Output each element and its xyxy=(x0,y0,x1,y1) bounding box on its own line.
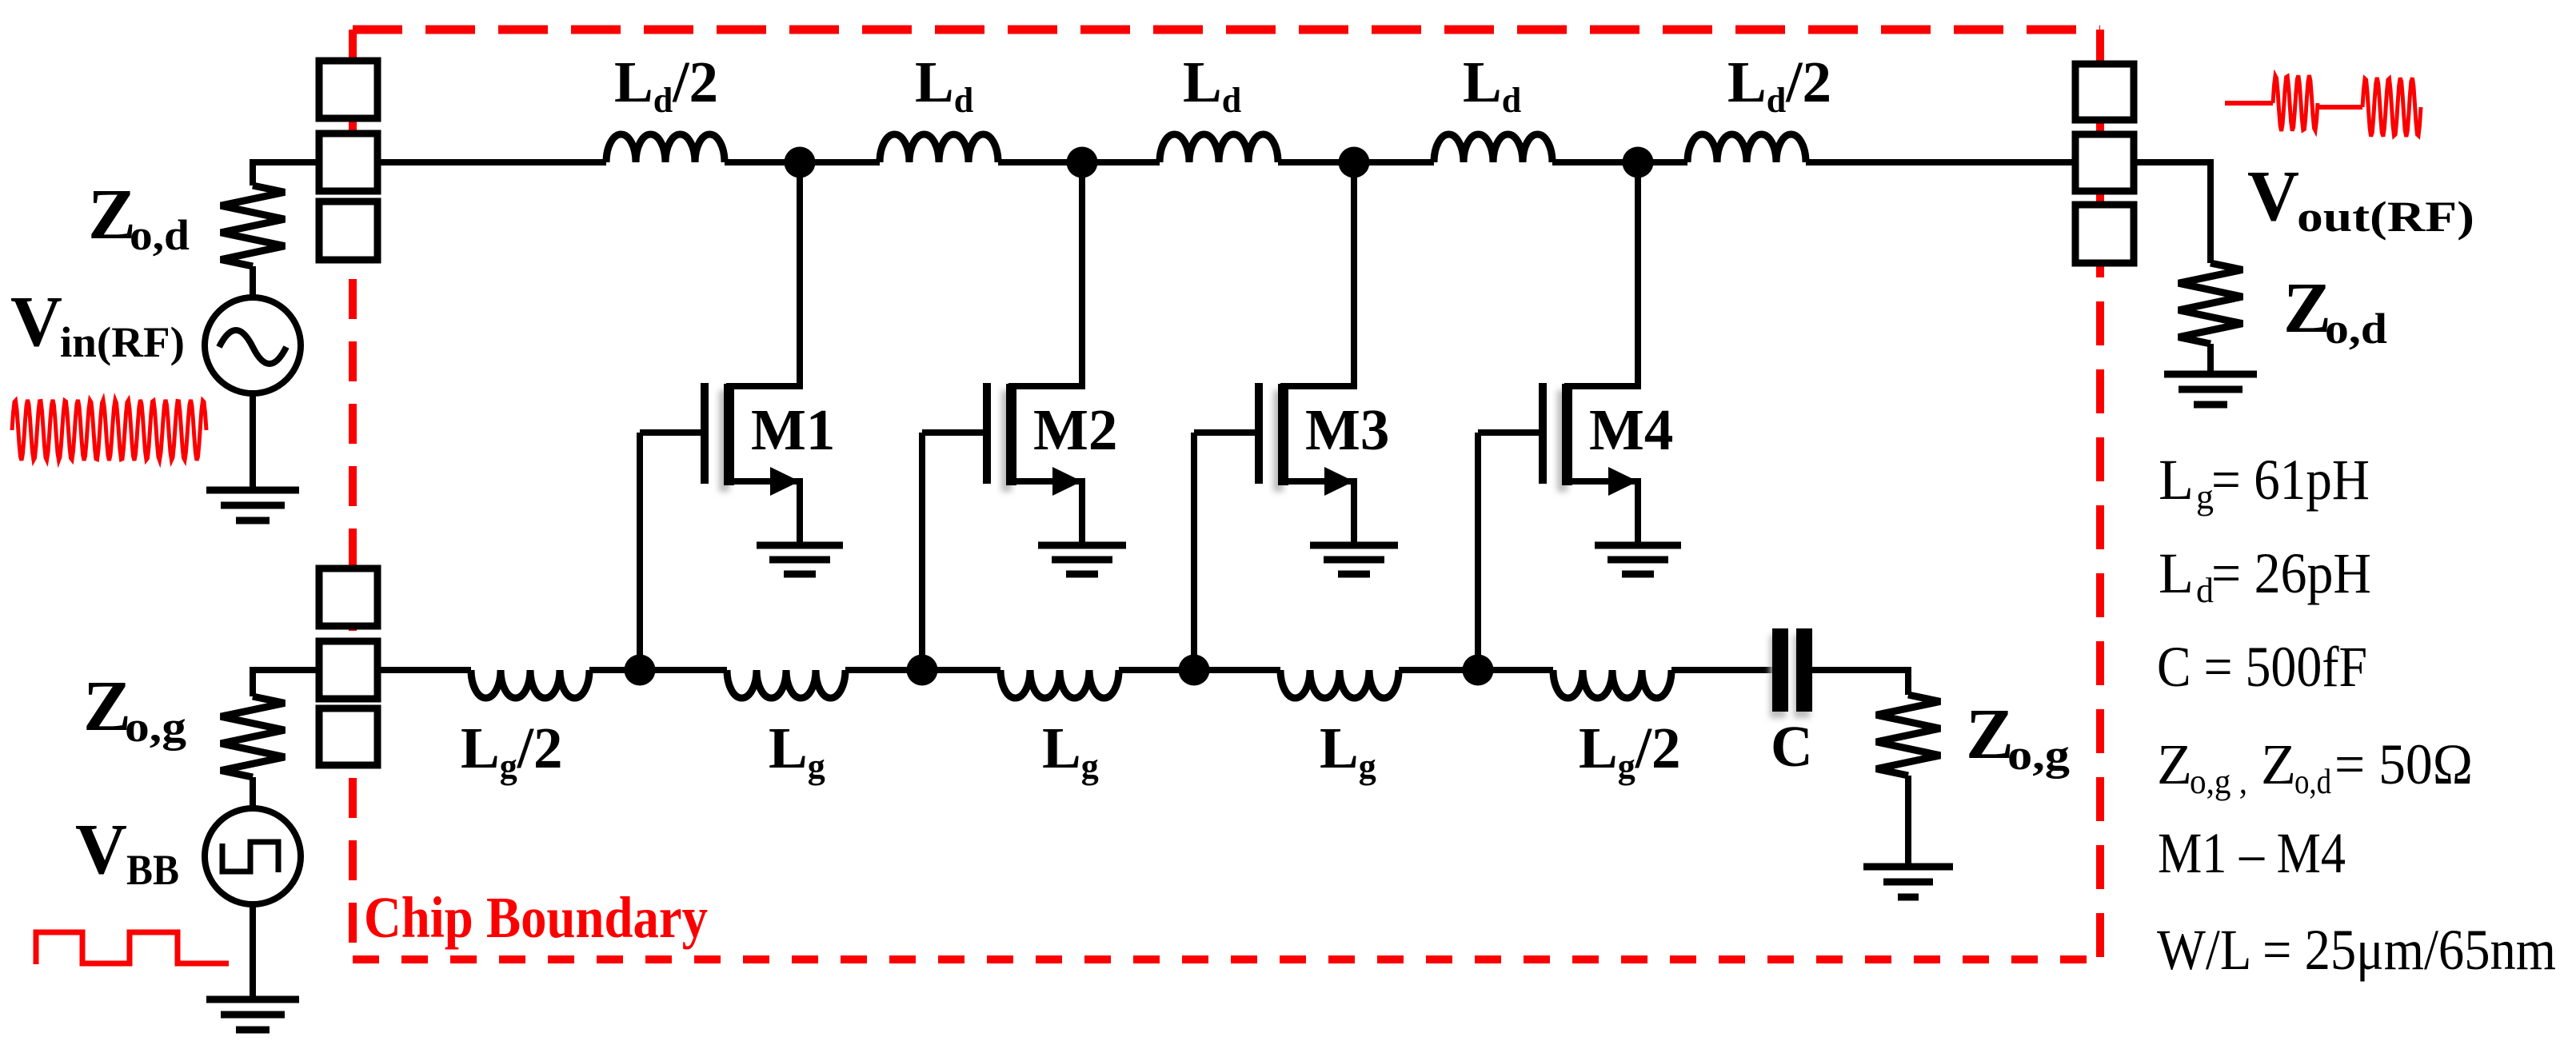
pad input drain bottom xyxy=(319,201,377,260)
pad input gate mid xyxy=(319,641,377,699)
svg-text:V: V xyxy=(10,282,62,361)
input RF sine burst (red) xyxy=(12,400,206,461)
label V_in(RF) xyxy=(10,282,185,366)
note Zo,g Zo,d = 50 ohm xyxy=(2157,732,2473,801)
label V_out(RF) xyxy=(2247,157,2474,241)
svg-text:= 26pH: = 26pH xyxy=(2211,541,2371,605)
inductor Lg third (gate line) xyxy=(1000,670,1119,698)
transistor M2 xyxy=(922,162,1082,670)
wire VBB source to ground xyxy=(250,904,256,999)
wire capacitor to Zo,g (termination) xyxy=(1812,670,1908,695)
label Ld/2 fifth xyxy=(1727,50,1831,120)
node gate-line junction G4 xyxy=(1463,655,1494,686)
svg-text:M1: M1 xyxy=(751,397,835,462)
note W/L = 25um/65nm xyxy=(2157,918,2556,982)
node drain-line junction D3 xyxy=(1339,147,1370,178)
ground (source of M2) xyxy=(1038,545,1126,574)
inductor Ld fourth (drain line) xyxy=(1434,134,1552,162)
svg-text:o,g ,: o,g , xyxy=(2190,762,2247,801)
label Z_o,d (output) xyxy=(2283,269,2387,353)
pad output top xyxy=(2075,64,2134,120)
ground (source of M1) xyxy=(757,545,843,574)
inductor Lg/2 fifth (gate line) xyxy=(1553,670,1671,698)
capacitor C xyxy=(1770,628,1812,718)
node drain-line junction D2 xyxy=(1067,147,1098,178)
label Ld second xyxy=(915,50,973,120)
ground (output Zo,d) xyxy=(2164,374,2257,405)
svg-text:W/L = 25μm/65nm: W/L = 25μm/65nm xyxy=(2157,918,2556,982)
resistor Zo,g (input) xyxy=(221,696,285,777)
transistor M3 xyxy=(1194,162,1354,670)
label M2 xyxy=(1033,397,1117,462)
note C = 500fF xyxy=(2157,635,2367,699)
ground (source of M4) xyxy=(1595,545,1681,574)
pad input drain mid xyxy=(319,134,377,191)
source Vin(RF) sine source xyxy=(205,297,301,393)
wire resistor to Vin source xyxy=(250,266,256,299)
pad input drain top xyxy=(319,61,377,118)
svg-text:out(RF): out(RF) xyxy=(2297,193,2474,241)
resistor Zo,g (termination) xyxy=(1876,695,1940,776)
svg-text:in(RF): in(RF) xyxy=(60,318,185,366)
label M1 xyxy=(751,397,835,462)
node gate-line junction G1 xyxy=(625,655,656,686)
svg-text:o,d: o,d xyxy=(130,211,190,259)
svg-text:V: V xyxy=(75,810,127,889)
node gate-line junction G2 xyxy=(907,655,938,686)
note Ld = 26pH xyxy=(2159,541,2371,610)
label V_BB xyxy=(75,810,179,894)
wire Vin source to ground xyxy=(250,393,256,490)
svg-text:= 61pH: = 61pH xyxy=(2211,448,2370,512)
label M3 xyxy=(1305,397,1389,462)
ground (termination Zo,g) xyxy=(1863,867,1953,897)
svg-text:o,d: o,d xyxy=(2325,305,2387,353)
node drain-line junction D4 xyxy=(1623,147,1654,178)
chip boundary top edge xyxy=(353,26,2100,34)
svg-text:V: V xyxy=(2247,157,2299,236)
label Chip Boundary xyxy=(364,885,708,950)
svg-text:Z: Z xyxy=(2157,732,2192,796)
label Lg/2 fifth xyxy=(1579,716,1681,786)
inductor Lg/2 first (gate line) xyxy=(471,670,589,698)
wire from drain rail to Zo,d (input) xyxy=(253,162,319,185)
svg-text:L: L xyxy=(2159,448,2194,512)
svg-text:= 50Ω: = 50Ω xyxy=(2334,732,2473,796)
resistor Zo,d (output) xyxy=(2179,263,2243,344)
svg-text:M2: M2 xyxy=(1033,397,1117,462)
node gate-line junction G3 xyxy=(1179,655,1210,686)
transistor M1 xyxy=(640,162,800,670)
wire from gate rail to Zo,g (input) xyxy=(253,670,319,696)
label M4 xyxy=(1589,397,1673,462)
wire drain line (top rail) xyxy=(253,159,2211,166)
label Lg fourth xyxy=(1320,716,1376,786)
svg-text:Chip Boundary: Chip Boundary xyxy=(364,885,708,950)
chip boundary left edge xyxy=(349,30,357,959)
resistor Zo,d (input) xyxy=(221,185,285,266)
svg-text:M1 – M4: M1 – M4 xyxy=(2158,821,2346,885)
label Ld fourth xyxy=(1463,50,1521,120)
label Ld third xyxy=(1183,50,1241,120)
wire gate line (bottom rail) xyxy=(253,667,1908,673)
wire resistor to ground (output) xyxy=(2207,344,2214,374)
svg-text:o,g: o,g xyxy=(125,703,186,751)
ground (VBB) xyxy=(206,999,299,1030)
inductor Ld third (drain line) xyxy=(1160,134,1278,162)
chip boundary right edge xyxy=(2096,30,2104,959)
svg-text:C: C xyxy=(1771,714,1813,779)
pad output bottom xyxy=(2075,205,2134,263)
svg-text:C = 500fF: C = 500fF xyxy=(2157,635,2367,699)
pad output mid xyxy=(2075,134,2134,191)
note M1 - M4 xyxy=(2158,821,2346,885)
chip boundary bottom edge xyxy=(353,955,2100,963)
pad input gate bottom xyxy=(319,708,377,765)
ground (source of M3) xyxy=(1310,545,1398,574)
inductor Lg fourth (gate line) xyxy=(1280,670,1399,698)
svg-text:o,g: o,g xyxy=(2007,731,2070,779)
inductor Ld/2 fifth (drain line) xyxy=(1687,134,1806,162)
label C xyxy=(1771,714,1813,779)
svg-text:L: L xyxy=(2159,541,2194,605)
ground (Vin) xyxy=(206,490,299,521)
label Ld/2 first xyxy=(614,50,718,120)
output RF line + sine bursts (red) xyxy=(2225,75,2421,137)
label Lg third xyxy=(1042,716,1099,786)
inductor Lg second (gate line) xyxy=(727,670,845,698)
label Z_o,d (input) xyxy=(88,175,190,259)
transistor M4 xyxy=(1478,162,1638,670)
VBB square wave (red) xyxy=(36,932,229,964)
inductor Ld/2 first (drain line) xyxy=(606,134,725,162)
wire from drain rail to output Zo,d xyxy=(2134,162,2211,263)
label Lg/2 first xyxy=(461,716,563,786)
pad input gate top xyxy=(319,568,377,626)
wire resistor to VBB source xyxy=(250,777,256,810)
note Lg = 61pH xyxy=(2159,448,2370,517)
label Z_o,g (input) xyxy=(83,667,186,751)
node drain-line junction D1 xyxy=(785,147,816,178)
label Lg second xyxy=(769,716,825,786)
svg-text:o,d: o,d xyxy=(2294,762,2331,801)
label Z_o,g (termination) xyxy=(1966,695,2070,779)
svg-text:M3: M3 xyxy=(1305,397,1389,462)
svg-text:M4: M4 xyxy=(1589,397,1673,462)
source V_BB square-wave source xyxy=(205,808,301,904)
inductor Ld second (drain line) xyxy=(880,134,998,162)
svg-text:BB: BB xyxy=(126,846,179,894)
wire resistor to ground (termination) xyxy=(1905,776,1911,867)
svg-text:Z: Z xyxy=(2261,732,2296,796)
